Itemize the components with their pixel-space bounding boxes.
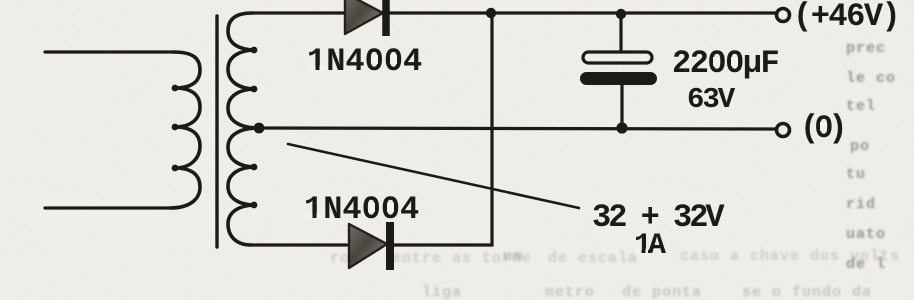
svg-text:um: um xyxy=(503,248,523,265)
svg-text:se o fundo da: se o fundo da xyxy=(742,284,872,300)
svg-text:caso a chave dos volts: caso a chave dos volts xyxy=(680,248,900,265)
svg-text:metro: metro xyxy=(545,284,595,300)
diode D1 cathode bar xyxy=(382,0,390,36)
wire diode D2 to corner and vertical link to top rail xyxy=(391,13,492,245)
svg-text:(+46V): (+46V) xyxy=(793,0,899,35)
svg-text:ros: ros xyxy=(330,250,360,267)
diode D1 anode triangle xyxy=(345,0,383,34)
wire center tap to 0 terminal xyxy=(258,128,776,129)
transformer T1 primary winding xyxy=(170,52,200,208)
wire diode D1 to top rail xyxy=(389,11,776,14)
svg-text:po: po xyxy=(850,138,870,155)
transformer T1 secondary winding xyxy=(228,13,258,245)
wire secondary top to diode D1 xyxy=(252,11,345,14)
capacitor C1 bottom lead xyxy=(620,85,623,128)
callout line to 32+32V label xyxy=(288,144,579,208)
capacitor C1 top lead xyxy=(619,14,622,52)
terminal 0 xyxy=(777,124,790,137)
svg-text:63V: 63V xyxy=(687,83,736,116)
node center tap xyxy=(254,123,265,134)
svg-text:rid: rid xyxy=(846,196,876,213)
svg-text:uato: uato xyxy=(846,226,886,243)
wire secondary bottom to diode D2 xyxy=(251,243,347,246)
terminal +46V xyxy=(777,9,790,22)
diode D2 cathode bar xyxy=(386,222,394,270)
node junction top rail / vertical link xyxy=(486,8,496,18)
svg-text:1N4004: 1N4004 xyxy=(307,43,422,80)
svg-text:tu: tu xyxy=(846,166,866,183)
node junction top rail / capacitor xyxy=(616,9,626,19)
transformer core xyxy=(215,16,218,247)
svg-text:1A: 1A xyxy=(634,229,666,263)
transformer T1 primary winding cusp knots xyxy=(172,85,179,172)
capacitor C1 bottom plate xyxy=(580,72,657,85)
svg-text:de escala: de escala xyxy=(548,250,638,267)
svg-text:2200µF: 2200µF xyxy=(672,45,779,82)
capacitor C1 top plate xyxy=(583,52,652,63)
svg-text:1N4004: 1N4004 xyxy=(304,191,419,228)
diode D2 anode triangle xyxy=(349,224,387,268)
wire primary top lead xyxy=(45,50,173,53)
node junction 0 rail / capacitor xyxy=(616,122,627,133)
svg-text:liga: liga xyxy=(422,284,462,300)
svg-text:de ponta: de ponta xyxy=(622,284,702,300)
wire primary bottom lead xyxy=(45,206,170,209)
svg-text:prec: prec xyxy=(846,40,886,57)
svg-text:tel: tel xyxy=(846,98,876,115)
svg-text:le co: le co xyxy=(846,70,896,87)
transformer T1 secondary winding cusp knots xyxy=(251,47,258,209)
